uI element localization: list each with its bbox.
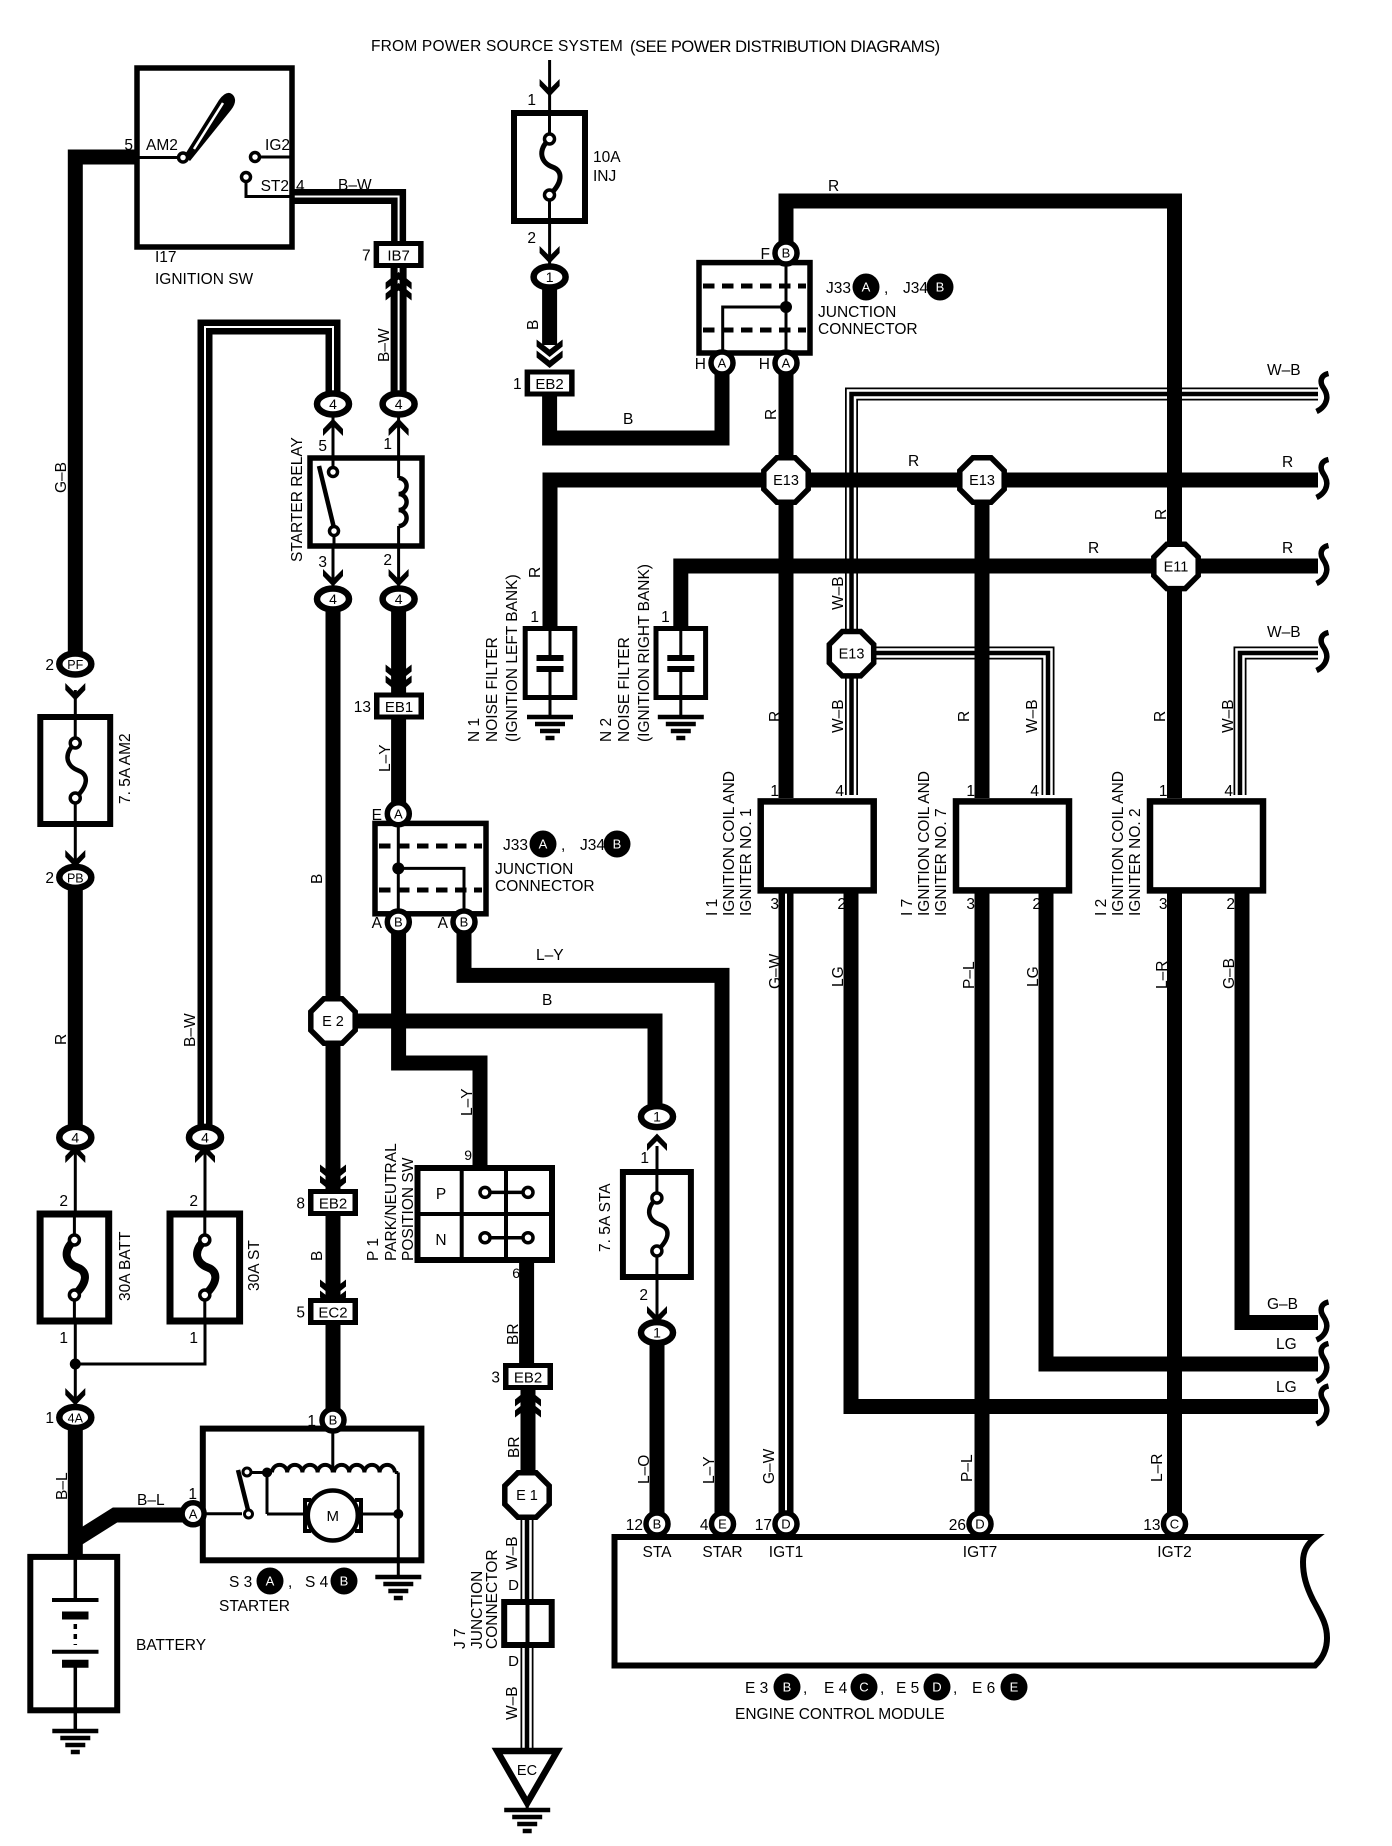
svg-text:2: 2 — [527, 230, 536, 247]
starter box — [203, 1429, 422, 1561]
svg-text:W–B: W–B — [830, 576, 847, 610]
svg-text:H: H — [759, 356, 770, 373]
svg-text:(SEE POWER DISTRIBUTION DIAGRA: (SEE POWER DISTRIBUTION DIAGRAMS) — [630, 38, 940, 56]
svg-text:I 1: I 1 — [704, 899, 721, 916]
connector 1 below STA fuse — [641, 1322, 673, 1343]
svg-text:W–B: W–B — [504, 1536, 521, 1570]
svg-text:2: 2 — [383, 552, 392, 569]
connector EB2 — [525, 370, 575, 397]
svg-text:W–B: W–B — [1267, 362, 1301, 379]
svg-text:PARK/NEUTRAL: PARK/NEUTRAL — [383, 1143, 400, 1261]
connector 4A — [59, 1407, 91, 1428]
wire L-Y junction connector pin A(B) to ECM STAR — [464, 930, 722, 1516]
junction connector J7 box — [504, 1602, 552, 1645]
wire connector 1 to 7.5A STA fuse — [656, 1146, 659, 1172]
starter pin 1(B) — [322, 1409, 344, 1431]
arrow into connector 4 right — [389, 419, 409, 437]
arrow into connector 1 below INJ fuse — [540, 246, 560, 264]
svg-text:STA: STA — [643, 1544, 673, 1561]
svg-text:P–L: P–L — [961, 961, 978, 989]
svg-text:R: R — [1282, 540, 1293, 557]
svg-text:ENGINE CONTROL MODULE: ENGINE CONTROL MODULE — [735, 1706, 945, 1723]
page break symbol y=653 — [1317, 633, 1329, 671]
svg-text:J33: J33 — [826, 280, 851, 297]
wire starter relay pin 3 to connector 4 — [332, 544, 335, 590]
svg-text:7: 7 — [362, 248, 371, 265]
svg-text:1: 1 — [45, 1410, 54, 1427]
svg-text:B–W: B–W — [182, 1013, 199, 1047]
svg-text:B–L: B–L — [137, 1492, 165, 1509]
svg-text:B: B — [460, 915, 469, 930]
svg-text:IG2: IG2 — [265, 137, 290, 154]
wire L-Y starter relay pin 2 to EB1 — [391, 610, 406, 696]
svg-text:2: 2 — [837, 896, 846, 913]
switch contacts y=1192.4 — [485, 1191, 528, 1195]
svg-text:L–R: L–R — [1154, 961, 1171, 989]
svg-text:IGNITION COIL AND: IGNITION COIL AND — [721, 771, 738, 916]
svg-text:C: C — [1170, 1517, 1179, 1532]
ground at starter — [375, 1575, 421, 1580]
wire 7.5A STA fuse pin 2 to connector 1 — [656, 1277, 659, 1323]
svg-text:A: A — [438, 915, 449, 932]
svg-text:A: A — [266, 1574, 275, 1589]
svg-text:2: 2 — [45, 870, 54, 887]
svg-text:1: 1 — [59, 1330, 68, 1347]
node E13 right — [960, 458, 1004, 502]
svg-text:B: B — [329, 1413, 338, 1428]
svg-text:E 4: E 4 — [824, 1680, 848, 1697]
node E13 left — [764, 458, 808, 502]
ECM pin 12(B) STA — [646, 1513, 668, 1535]
svg-text:P–L: P–L — [959, 1454, 976, 1482]
connector 4 relay pin3 bottom — [317, 589, 349, 610]
junction connector box (J33/J34 upper) — [699, 263, 810, 353]
wire R E13 to ignition coil I7 pin 1 — [975, 480, 990, 798]
svg-text:J 7: J 7 — [452, 1628, 469, 1649]
wire B-L battery feed to starter terminal A — [75, 1515, 186, 1540]
svg-text:1: 1 — [307, 1413, 316, 1430]
svg-text:,: , — [803, 1680, 807, 1697]
wire B-L connector 4A to battery — [68, 1427, 83, 1560]
svg-text:L–R: L–R — [1149, 1454, 1166, 1482]
svg-text:7. 5A STA: 7. 5A STA — [597, 1183, 614, 1252]
svg-text:NOISE FILTER: NOISE FILTER — [484, 637, 501, 742]
connector 4 starter column — [189, 1127, 221, 1148]
wire B connector 1 to EB2 — [542, 287, 557, 345]
svg-text:B: B — [525, 320, 542, 330]
wire R junction connector F(B) via E11 to coil I2 pin 1 — [786, 201, 1175, 798]
svg-text:1: 1 — [527, 92, 536, 109]
noise filter N2 — [656, 629, 706, 698]
svg-text:4: 4 — [395, 396, 403, 412]
svg-text:W–B: W–B — [1267, 624, 1301, 641]
svg-text:10A: 10A — [593, 149, 621, 166]
svg-text:4: 4 — [329, 591, 337, 607]
svg-text:E: E — [372, 807, 382, 824]
svg-text:I17: I17 — [155, 249, 177, 266]
svg-text:B: B — [394, 915, 403, 930]
S3 circle A — [257, 1568, 284, 1595]
svg-text:2: 2 — [639, 1287, 648, 1304]
svg-text:P 1: P 1 — [365, 1238, 382, 1261]
page break symbol y=394 — [1317, 374, 1329, 412]
svg-text:3: 3 — [966, 896, 975, 913]
svg-text:5: 5 — [124, 137, 133, 154]
svg-text:B: B — [623, 411, 633, 428]
svg-text:BATTERY: BATTERY — [136, 1637, 206, 1654]
svg-text:G–B: G–B — [53, 462, 70, 493]
svg-text:H: H — [695, 356, 706, 373]
svg-text:1: 1 — [640, 1150, 649, 1167]
svg-text:2: 2 — [1226, 896, 1235, 913]
svg-text:B: B — [340, 1574, 349, 1589]
wire connector 4 to 30A BATT fuse — [74, 1146, 77, 1214]
wire starter relay pin 2 to connector 4 — [397, 544, 400, 590]
J34 circle B — [927, 274, 954, 301]
svg-text:I 7: I 7 — [899, 899, 916, 916]
node E13 on W-B — [829, 632, 873, 676]
wire W-B E13 to ignition coil I7 pin 4 — [856, 653, 1048, 795]
svg-text:B: B — [936, 280, 945, 295]
svg-text:6: 6 — [512, 1265, 520, 1281]
svg-text:I 2: I 2 — [1093, 899, 1110, 916]
svg-text:1: 1 — [546, 269, 554, 285]
svg-text:INJ: INJ — [593, 168, 616, 185]
svg-text:13: 13 — [1143, 1517, 1160, 1534]
page break symbol y=566 — [1317, 546, 1329, 584]
wire R noise filter N2 to page break via E11 — [681, 566, 1318, 632]
svg-text:P: P — [436, 1186, 446, 1203]
svg-text:B: B — [782, 246, 791, 261]
switch contacts y=1237.7 — [485, 1236, 528, 1240]
svg-text:IGNITER NO. 2: IGNITER NO. 2 — [1127, 808, 1144, 916]
svg-text:W–B: W–B — [830, 699, 847, 733]
svg-text:A: A — [189, 1506, 198, 1521]
svg-text:G–B: G–B — [1221, 958, 1238, 989]
svg-text:R: R — [1282, 454, 1293, 471]
wire R PB to connector 4 — [68, 886, 83, 1129]
wire B-W 30A ST fuse up to starter relay connector 4 — [205, 327, 333, 1129]
svg-text:E: E — [1010, 1680, 1019, 1695]
wire connector 4 to starter relay pin 5 — [332, 412, 335, 458]
svg-text:LG: LG — [1276, 1379, 1297, 1396]
arrow into connector 1 below STA fuse — [647, 1306, 667, 1324]
svg-text:IGNITION COIL AND: IGNITION COIL AND — [1110, 771, 1127, 916]
svg-text:R: R — [763, 409, 780, 420]
svg-text:1: 1 — [189, 1330, 198, 1347]
svg-text:JUNCTION: JUNCTION — [818, 304, 896, 321]
svg-text:S 3: S 3 — [229, 1574, 252, 1591]
wire connector 4 to 30A ST fuse — [204, 1146, 207, 1214]
starter motor M — [266, 1473, 269, 1515]
svg-text:E 6: E 6 — [972, 1680, 995, 1697]
fuse 7.5A AM2 — [40, 717, 110, 824]
wire B E2 to 7.5A STA fuse connector — [357, 1021, 655, 1108]
svg-text:R: R — [908, 453, 919, 470]
node E11 — [1154, 544, 1198, 588]
connector 1 below INJ fuse — [534, 267, 566, 288]
wire W-B E1 to junction connector J7 — [521, 1518, 534, 1604]
svg-text:B: B — [783, 1680, 792, 1695]
svg-text:W–B: W–B — [1220, 699, 1237, 733]
starter solenoid coils — [251, 1471, 272, 1474]
starter relay box — [310, 458, 422, 546]
svg-text:LG: LG — [1025, 966, 1042, 987]
svg-text:,: , — [561, 837, 565, 854]
svg-text:LG: LG — [830, 966, 847, 987]
fuse 7.5A STA — [623, 1172, 691, 1277]
svg-text:R: R — [767, 711, 784, 722]
svg-text:B: B — [653, 1517, 662, 1532]
wire LG ignition coil I7 pin 2 to page break — [1046, 893, 1318, 1364]
svg-text:B: B — [309, 874, 326, 884]
wire 30A BATT fuse to connector 4A — [74, 1321, 77, 1409]
svg-text:1: 1 — [770, 783, 779, 800]
wire G-W ignition coil I1 pin 3 to ECM IGT1 — [779, 893, 794, 1516]
fuse 10A INJ — [514, 113, 585, 221]
svg-text:4: 4 — [1030, 783, 1039, 800]
page break symbol y=480 — [1317, 460, 1329, 498]
svg-text:B–W: B–W — [338, 177, 372, 194]
svg-text:R: R — [1153, 509, 1170, 520]
arrow into PB — [65, 850, 85, 868]
ground EC triangle — [497, 1751, 557, 1803]
wire 30A ST fuse output join to battery feed — [75, 1321, 205, 1364]
engine control module box — [615, 1537, 1328, 1666]
connector PB — [59, 867, 91, 888]
svg-text:4A: 4A — [68, 1412, 84, 1426]
svg-text:W–B: W–B — [1024, 699, 1041, 733]
connector 4 relay pin5 top — [317, 394, 349, 415]
svg-text:3: 3 — [491, 1370, 500, 1387]
svg-text:4: 4 — [395, 591, 403, 607]
svg-text:30A BATT: 30A BATT — [117, 1231, 134, 1301]
svg-text:J34: J34 — [580, 837, 605, 854]
page break symbol y=1406.5 — [1317, 1386, 1329, 1424]
svg-text:5: 5 — [318, 438, 327, 455]
J33 circle A — [853, 274, 880, 301]
connector EB2 park/neutral column — [503, 1363, 553, 1390]
svg-text:E: E — [718, 1517, 727, 1532]
svg-text:ST2: ST2 — [261, 178, 289, 195]
svg-text:A: A — [718, 356, 727, 371]
svg-text:IGNITER NO. 1: IGNITER NO. 1 — [738, 808, 755, 916]
svg-text:R: R — [53, 1034, 70, 1045]
wire L-R ignition coil I2 pin 3 to ECM IGT2 — [1167, 893, 1182, 1516]
svg-text:J33: J33 — [503, 837, 528, 854]
starter switch arm — [204, 1512, 242, 1515]
svg-text:30A ST: 30A ST — [246, 1240, 263, 1291]
E5 circle D — [924, 1674, 951, 1701]
junction dot battery feed — [70, 1359, 81, 1370]
arrow into connector 4 left — [323, 419, 343, 437]
E4 circle C — [851, 1674, 878, 1701]
svg-text:C: C — [859, 1680, 868, 1695]
svg-text:EB2: EB2 — [514, 1370, 542, 1387]
contact AM2 — [137, 156, 178, 159]
svg-text:4: 4 — [296, 178, 305, 195]
wire B E2 to EB2 — [326, 1043, 341, 1170]
wire 7.5A AM2 fuse to PB — [74, 824, 77, 868]
junction connector pin A(B) right — [453, 911, 475, 933]
svg-text:N 2: N 2 — [598, 718, 615, 742]
svg-text:F: F — [761, 246, 770, 263]
svg-text:,: , — [880, 1680, 884, 1697]
svg-text:13: 13 — [354, 699, 371, 716]
svg-text:A: A — [539, 837, 548, 852]
svg-text:STAR: STAR — [702, 1544, 742, 1561]
arrow into EC2 — [320, 1291, 346, 1309]
svg-text:1: 1 — [530, 609, 539, 626]
junction connector pin F(B) — [775, 242, 797, 264]
node E2 — [311, 999, 355, 1043]
junction connector pin E(A) — [387, 803, 409, 825]
svg-text:NOISE FILTER: NOISE FILTER — [616, 637, 633, 742]
contact ST2 — [242, 173, 251, 182]
svg-text:L–Y: L–Y — [536, 947, 564, 964]
arrow into EB2 ground column — [320, 1176, 346, 1194]
E6 circle E — [1001, 1674, 1028, 1701]
svg-text:E13: E13 — [969, 473, 995, 489]
svg-text:L–Y: L–Y — [377, 744, 394, 772]
svg-text:IB7: IB7 — [387, 248, 410, 265]
wire W-B from E13 up to page break (net W-B) — [852, 394, 1319, 648]
svg-text:IGT7: IGT7 — [963, 1544, 997, 1561]
svg-text:G–W: G–W — [767, 953, 784, 989]
svg-text:A: A — [782, 356, 791, 371]
wire BR EB2 to E1 — [521, 1388, 536, 1472]
arrow into EB2 — [537, 351, 563, 369]
junction connector pin A(B) left — [387, 911, 409, 933]
svg-text:D: D — [932, 1680, 941, 1695]
svg-text:1: 1 — [661, 609, 670, 626]
svg-text:4: 4 — [1224, 783, 1233, 800]
svg-text:IGNITION COIL AND: IGNITION COIL AND — [916, 771, 933, 916]
svg-text:A: A — [862, 280, 871, 295]
svg-text:E 2: E 2 — [322, 1014, 344, 1030]
ignition switch lever — [184, 93, 235, 161]
svg-text:EB2: EB2 — [319, 1196, 347, 1213]
svg-text:1: 1 — [513, 376, 522, 393]
wire R junction connector H(A) through E13 to coil I1 pin 1 — [779, 372, 794, 798]
svg-text:B: B — [542, 992, 552, 1009]
contact IG2 — [251, 153, 260, 162]
svg-text:IGNITER NO. 7: IGNITER NO. 7 — [933, 808, 950, 916]
ECM pin 13(C) IGT2 — [1164, 1513, 1186, 1535]
svg-text:E13: E13 — [773, 473, 799, 489]
svg-text:4: 4 — [201, 1129, 209, 1145]
svg-text:N: N — [435, 1232, 446, 1249]
arrow from power source — [540, 79, 560, 97]
svg-text:D: D — [508, 1653, 519, 1670]
S4 circle B — [331, 1568, 358, 1595]
wire W-B ignition coil I2 pin 4 to page break — [1240, 653, 1318, 795]
arrow into IB7 — [386, 272, 412, 290]
svg-text:FROM POWER SOURCE SYSTEM: FROM POWER SOURCE SYSTEM — [371, 38, 623, 55]
svg-text:CONNECTOR: CONNECTOR — [484, 1549, 501, 1649]
svg-text:R: R — [1152, 711, 1169, 722]
wire 10A INJ fuse pin 2 to connector 1 — [548, 221, 551, 265]
wire B starter relay pin 3 down to starter pin B — [326, 610, 341, 1415]
svg-text:2: 2 — [45, 657, 54, 674]
connector 4 relay pin1 top — [383, 394, 415, 415]
svg-text:R: R — [828, 178, 839, 195]
relay switch arm — [319, 466, 334, 528]
wire R noise filter N1 to page break via E13 connectors — [550, 480, 1318, 632]
connector EB2 ground column — [308, 1189, 358, 1216]
E3 circle B — [774, 1674, 801, 1701]
svg-text:A: A — [394, 806, 403, 821]
svg-text:D: D — [975, 1517, 984, 1532]
svg-text:,: , — [288, 1574, 292, 1591]
svg-text:B–L: B–L — [54, 1472, 71, 1500]
svg-text:,: , — [953, 1680, 957, 1697]
junction connector pin H(A) right — [775, 352, 797, 374]
starter pin 1(A) — [182, 1503, 204, 1525]
battery box — [30, 1557, 117, 1710]
park/neutral position switch P1 box — [418, 1168, 553, 1260]
wire LG ignition coil I1 pin 2 to page break — [851, 893, 1318, 1407]
wire connector 4 to starter relay pin 1 — [397, 412, 400, 458]
svg-text:M: M — [327, 1508, 340, 1525]
arrow below connector 1 STA fuse — [647, 1134, 667, 1152]
wire L-Y junction connector to park/neutral switch pin 9 — [399, 930, 480, 1172]
svg-text:D: D — [781, 1517, 790, 1532]
svg-text:3: 3 — [770, 896, 779, 913]
svg-text:EC2: EC2 — [318, 1305, 347, 1322]
svg-text:4: 4 — [835, 783, 844, 800]
svg-text:S 4: S 4 — [305, 1574, 329, 1591]
svg-text:17: 17 — [755, 1517, 772, 1534]
svg-text:7. 5A AM2: 7. 5A AM2 — [117, 733, 134, 804]
svg-text:CONNECTOR: CONNECTOR — [818, 321, 918, 338]
wire PF to 7.5A AM2 fuse — [74, 690, 77, 717]
svg-text:A: A — [372, 915, 383, 932]
svg-text:AM2: AM2 — [146, 137, 178, 154]
connector EC2 — [308, 1298, 358, 1325]
ignition switch I17 box — [137, 68, 292, 247]
svg-text:1: 1 — [653, 1109, 661, 1125]
svg-text:3: 3 — [318, 554, 327, 571]
arrow below PF — [65, 683, 85, 701]
wire W-B junction connector J7 to ground EC — [521, 1643, 534, 1755]
svg-text:2: 2 — [59, 1193, 68, 1210]
wire BR park/neutral switch pin 6 to EB2 — [519, 1258, 534, 1365]
wire B-W ignition switch ST2 to IB7 — [292, 197, 399, 244]
svg-text:EB2: EB2 — [535, 376, 563, 393]
svg-text:(IGNITION RIGHT BANK): (IGNITION RIGHT BANK) — [636, 564, 653, 742]
svg-text:JUNCTION: JUNCTION — [495, 861, 573, 878]
svg-text:PB: PB — [67, 871, 84, 885]
junction connector pin H(A) left — [711, 352, 733, 374]
arrow into EB2 park/neutral column — [515, 1389, 541, 1407]
arrow into EB1 — [386, 676, 412, 694]
svg-text:(IGNITION LEFT BANK): (IGNITION LEFT BANK) — [504, 574, 521, 742]
svg-text:PF: PF — [67, 658, 83, 672]
fuse 30A BATT — [40, 1214, 109, 1321]
svg-text:1: 1 — [653, 1325, 661, 1341]
svg-text:12: 12 — [626, 1517, 643, 1534]
wire L-Y EB1 to junction connector pin E(A) — [391, 716, 406, 806]
junction connector box (J33/J34 lower) — [375, 823, 486, 913]
svg-text:,: , — [884, 280, 888, 297]
svg-text:9: 9 — [464, 1147, 472, 1163]
svg-text:E 1: E 1 — [516, 1488, 538, 1504]
svg-text:N 1: N 1 — [466, 718, 483, 742]
svg-text:B–W: B–W — [376, 328, 393, 362]
svg-text:STARTER: STARTER — [219, 1598, 290, 1615]
svg-text:4: 4 — [700, 1517, 709, 1534]
